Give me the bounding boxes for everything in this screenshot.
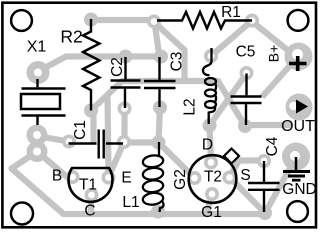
wire C1 right to T1 E [109, 142, 125, 177]
svg-text:G1: G1 [201, 204, 222, 221]
svg-text:OUT: OUT [281, 118, 315, 135]
svg-text:C1: C1 [72, 120, 89, 140]
pad L2 top [204, 49, 218, 63]
wire C1 right to L1 top [124, 139, 159, 145]
mounting hole bottom-right [287, 201, 308, 222]
mounting hole top-right [288, 10, 309, 31]
pad C4 bottom [258, 206, 272, 220]
svg-text:T2: T2 [204, 169, 222, 186]
svg-text:C5: C5 [236, 44, 256, 61]
pad L2 bottom [203, 119, 217, 133]
wire B+ to C5 plate [262, 57, 298, 97]
svg-text:C: C [84, 203, 95, 220]
wire R2 bottom to mid rail to C5 bottom [91, 81, 245, 126]
wire C3 bottom to L1 top [159, 108, 161, 143]
svg-text:C2: C2 [109, 57, 126, 77]
wire L2 top to R1 right [212, 22, 252, 56]
OUT arrow [296, 100, 308, 114]
pads [27, 13, 313, 221]
svg-text:B+: B+ [266, 45, 282, 63]
pad C3 top [154, 50, 168, 64]
capacitor C5 [231, 74, 262, 126]
transistor T1 [69, 168, 113, 202]
pad C1 left [62, 135, 76, 149]
svg-text:E: E [121, 170, 131, 187]
wire X1 bottom to C1 left [37, 136, 69, 142]
pad C2 bottom [118, 102, 132, 116]
pad T2 G1 [205, 187, 219, 201]
wire T2 G2 to L1 top [159, 143, 195, 179]
pad holes [33, 17, 303, 198]
capacitor C3 [144, 57, 176, 107]
wire C2 bottom to C1 right [121, 109, 127, 143]
pad C5 bottom [238, 119, 252, 133]
pad L1 bottom [151, 205, 165, 219]
svg-text:L1: L1 [122, 194, 139, 211]
wire R1 left down to C3 top [155, 22, 160, 54]
wire L2 bottom to T2 D [210, 126, 212, 163]
pad T2 D [204, 156, 218, 170]
pad OUT [286, 94, 313, 121]
pad C2 top [119, 50, 133, 64]
svg-text:GND: GND [282, 181, 316, 198]
pad GND [282, 143, 310, 171]
svg-text:D: D [202, 137, 213, 154]
crystal X1 [21, 79, 66, 125]
pad T1 C [85, 188, 99, 202]
pad C1 right [117, 135, 131, 149]
pad L1 top [152, 136, 166, 150]
pad C3 bottom [153, 101, 167, 115]
svg-text:L2: L2 [182, 98, 199, 115]
copper traces [12, 20, 298, 214]
wire R2 bottom down to C1 left plate [90, 111, 96, 143]
svg-text:X1: X1 [27, 39, 47, 56]
pad T1 B [66, 170, 80, 184]
pad R1 left [147, 15, 161, 29]
capacitor C2 [111, 57, 141, 108]
pad R2 bottom [84, 104, 98, 118]
pad R1 right [245, 14, 259, 28]
svg-text:R2: R2 [60, 27, 82, 47]
resistor R2 [83, 19, 100, 111]
inductor L2 [203, 48, 216, 124]
wire X1 extra pad to T1 B [37, 152, 73, 178]
pad B+ [285, 43, 313, 71]
pad R2 top [84, 13, 98, 27]
svg-text:C3: C3 [169, 52, 186, 72]
svg-text:C4: C4 [264, 136, 281, 156]
pad T1 E [102, 171, 116, 185]
T2 tab [224, 149, 239, 164]
wire R1 right to B+ [252, 22, 295, 57]
capacitor C1 [69, 130, 124, 159]
wire X1 top to C2/C3 top rail [38, 57, 161, 72]
svg-text:B: B [52, 168, 62, 185]
wire T2 S to C4 top [230, 161, 265, 178]
svg-text:S: S [240, 167, 250, 184]
capacitor C4 [248, 161, 280, 212]
pad X1 ground [27, 141, 48, 162]
mounting hole bottom-left [11, 203, 33, 225]
svg-text:G2: G2 [172, 169, 189, 190]
pad X1 bottom [27, 125, 48, 146]
svg-text:R1: R1 [221, 4, 241, 21]
wire mid rail junction down to T1 E [108, 94, 109, 175]
wire C5 bottom to OUT [245, 122, 292, 128]
transistor T2 [189, 155, 237, 203]
ground symbol [283, 157, 310, 180]
wire T2 S to C4 bottom [230, 177, 266, 213]
pad T2 S [223, 171, 237, 185]
pad C4 top [257, 154, 271, 168]
mounting hole top-left [11, 10, 32, 31]
wire R1 left diagonal and vertical to mid rail [155, 23, 185, 81]
wire C5 top to L2 bottom [210, 74, 247, 126]
svg-text:T1: T1 [79, 177, 97, 194]
pad C5 top [240, 66, 254, 80]
wire C4 bottom to GND [265, 161, 294, 213]
pad T2 G2 [188, 171, 202, 185]
wire T1 C to bottom rail [88, 195, 94, 213]
wire ground: X1 extra pad, left corner, bottom rail to C4 bottom [12, 152, 266, 215]
resistor R1 [157, 12, 252, 29]
inductor L1 [142, 142, 164, 212]
B+ plus symbol [289, 56, 307, 71]
wire T2 G1 to bottom rail [207, 194, 212, 213]
wire R2 top to R1 left (top rail) [91, 17, 154, 23]
pad X1 top [27, 61, 50, 84]
